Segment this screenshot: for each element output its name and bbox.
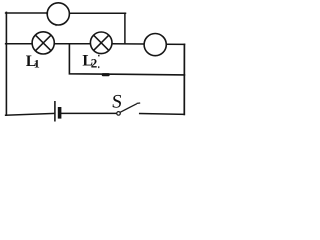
meter M1 (top circle) (46, 3, 69, 27)
wire middle: left vertical to L1 (6, 43, 33, 45)
switch S lever (120, 104, 137, 113)
switch S contact circle (117, 112, 121, 116)
wire right vertical (183, 44, 185, 114)
battery cell: short thick negative plate (58, 107, 62, 119)
scan speck below L2 (98, 66, 99, 68)
lamp L2 (90, 32, 112, 54)
wire left vertical (5, 12, 7, 115)
lamp L1 (32, 32, 54, 54)
wire bypass vertical+horizontal (shorting branch) (69, 44, 184, 75)
wire bottom: battery to switch (61, 112, 117, 114)
wire top horizontal right segment (69, 12, 125, 14)
wire middle: right meter to right vertical (166, 43, 184, 45)
svg-text:2: 2 (91, 56, 98, 71)
scan speck near L2 (98, 55, 100, 57)
wire middle: L2 to right meter (112, 43, 144, 45)
wire bottom: left corner to battery (6, 113, 55, 115)
junction blob on bypass wire (102, 73, 110, 76)
wire middle: L1 to L2 (54, 43, 90, 45)
label S (111, 91, 123, 112)
meter M2 (right circle) (144, 34, 166, 56)
switch S lever tip (137, 102, 141, 104)
battery cell: long thin positive plate (54, 101, 56, 122)
wire top branch vertical (124, 13, 126, 43)
svg-text:S: S (111, 91, 123, 112)
wire bottom: switch to right corner (140, 113, 185, 116)
svg-text:1: 1 (34, 57, 40, 71)
wire top horizontal left segment (6, 12, 48, 14)
